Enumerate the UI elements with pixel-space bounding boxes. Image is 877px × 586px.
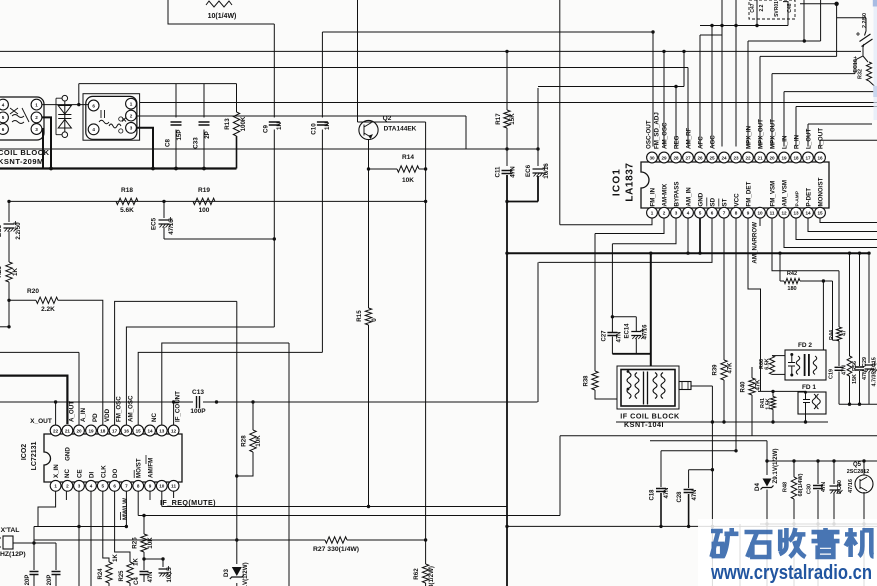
svg-text:2: 2	[663, 211, 666, 216]
electrolytic capacitor EC5	[159, 220, 170, 224]
wire C18 v	[660, 451, 662, 487]
wire C8 C33 R13 top line y83	[79, 83, 237, 85]
scrollbar edge	[874, 0, 877, 120]
svg-text:4.7/35: 4.7/35	[872, 372, 877, 387]
wire C18 b	[660, 493, 662, 526]
junction y524 x818	[816, 522, 819, 525]
junction x653 y32	[651, 30, 654, 33]
svg-text:NC: NC	[64, 469, 71, 478]
IC02 top pin circles 22-12	[50, 425, 61, 436]
svg-text:Q2: Q2	[383, 115, 392, 122]
svg-text:17: 17	[805, 155, 811, 160]
wire thick x507 down	[506, 202, 508, 586]
transistor Q2 DTA144EK	[359, 120, 378, 139]
resistor R48	[791, 477, 797, 499]
svg-text:R13: R13	[224, 118, 231, 130]
svg-text:47N: 47N	[617, 331, 623, 342]
svg-text:MO/ST: MO/ST	[136, 458, 143, 478]
wire x236 down	[236, 301, 238, 564]
wire svr hook	[783, 2, 788, 26]
svg-text:5: 5	[699, 211, 702, 216]
wire x818 under watermark	[817, 524, 819, 586]
wire pin3 down	[78, 492, 80, 586]
svg-text:15P: 15P	[176, 129, 183, 140]
junction y524 x794	[792, 522, 795, 525]
svg-text:21: 21	[757, 155, 763, 160]
capacitor C10	[317, 122, 328, 125]
wire pin22 up	[747, 41, 749, 147]
svg-text:18: 18	[100, 428, 106, 433]
junction EC5 top	[162, 200, 165, 203]
svg-text:25: 25	[709, 155, 715, 160]
svg-text:0: 0	[371, 318, 378, 322]
svg-text:19: 19	[781, 155, 787, 160]
wire R28 top	[252, 402, 254, 430]
wire pin5 GND	[699, 218, 701, 253]
svg-text:SD: SD	[710, 197, 717, 206]
wire x560 down	[559, 436, 561, 516]
wire x34 down	[33, 543, 35, 570]
wire y32 osc line	[322, 31, 653, 33]
wire R39 mid	[723, 356, 725, 360]
varactor diode pair D1 D2	[62, 95, 68, 101]
resistor R28	[250, 430, 256, 452]
coil block 1 pin circles	[0, 99, 8, 110]
resistor R17	[504, 110, 510, 128]
svg-text:AM_VSM: AM_VSM	[782, 180, 789, 206]
svg-text:100: 100	[199, 207, 210, 214]
overline SD	[706, 198, 708, 207]
junction pin8 y450	[734, 449, 737, 452]
junction bus x859	[858, 252, 861, 255]
wire x794 under watermark	[793, 524, 795, 586]
svg-text:9: 9	[747, 211, 750, 216]
resistor R21	[6, 262, 12, 282]
junction C18 bottom	[659, 525, 662, 528]
wire EC3 to R21	[8, 231, 10, 262]
wire R39 bottom	[723, 380, 725, 422]
svg-text:R15: R15	[356, 310, 363, 322]
svg-text:C30: C30	[807, 484, 813, 494]
wire to R44 bottom	[833, 339, 840, 341]
wire y391 FD1 feed	[758, 390, 806, 392]
wire pin27 up	[687, 68, 689, 147]
svg-text:C27: C27	[602, 330, 608, 342]
capacitor C27	[607, 333, 617, 336]
svg-text:15K: 15K	[852, 374, 858, 384]
wire pin15 MONO/ST	[820, 218, 877, 222]
wire y41 mpx	[748, 40, 821, 42]
svg-text:C48: C48	[787, 3, 793, 12]
wire pin23 up	[735, 0, 737, 147]
IC01 bottom pin circles 1-15	[647, 207, 658, 218]
svg-text:GND: GND	[698, 192, 705, 206]
svg-text:18: 18	[793, 155, 799, 160]
diode D3 zener 5.1V	[232, 567, 242, 576]
svg-text:8: 8	[735, 211, 738, 216]
wire EC14 v	[635, 317, 637, 331]
wire R24 bottom	[108, 583, 110, 586]
wire C28 b	[688, 494, 690, 526]
wire C11 bottom	[506, 175, 508, 202]
capacitor C2 20P	[30, 572, 39, 575]
svg-text:AFC: AFC	[698, 136, 705, 149]
wire EC5 top	[163, 201, 165, 218]
svg-text:12: 12	[171, 428, 177, 433]
wire pin24 up	[721, 0, 723, 147]
svg-text:R62: R62	[413, 568, 420, 580]
svg-text:6: 6	[2, 127, 5, 132]
svg-text:FD 2: FD 2	[798, 342, 812, 349]
wire C19 v	[838, 341, 840, 366]
wire svr vertical 1	[756, 0, 758, 26]
svg-text:180: 180	[787, 286, 796, 292]
wire R42 right	[800, 280, 833, 282]
svg-text:MPX_OUT: MPX_OUT	[758, 119, 765, 149]
wire C19 b	[838, 372, 840, 405]
svg-text:DTA144EK: DTA144EK	[384, 126, 417, 133]
svg-text:1: 1	[35, 102, 38, 107]
junction bus x849	[848, 252, 851, 255]
svg-text:11: 11	[171, 484, 176, 489]
wire R27 line right	[347, 539, 426, 541]
svg-text:FM_VSM: FM_VSM	[770, 181, 777, 207]
resistor R20	[36, 297, 58, 303]
wire R42 left down	[779, 253, 781, 281]
wire x236 bottom	[236, 583, 238, 586]
IC01 top pin circles 30-16	[647, 152, 658, 163]
wire from R11 down-right to node	[168, 0, 274, 24]
svg-text:1.5K: 1.5K	[766, 398, 772, 409]
svg-text:P-DET: P-DET	[806, 188, 813, 207]
wire C4 bottom	[143, 575, 145, 582]
wire R18-R19 line y201	[9, 200, 426, 202]
wire R32 bottom	[869, 81, 874, 92]
wire y140 right	[820, 139, 877, 141]
wire pin8 VCC	[735, 218, 737, 451]
wire EC6 bottom	[537, 176, 539, 202]
wire x804 down	[803, 0, 805, 41]
svg-text:22: 22	[745, 155, 751, 160]
svg-text:2.2: 2.2	[759, 4, 765, 11]
junction R62 top	[424, 538, 427, 541]
svg-text:C19: C19	[829, 369, 835, 379]
wire pin6 to R25	[115, 492, 130, 563]
svg-text:20P: 20P	[25, 575, 31, 586]
wire pin4 down	[90, 492, 92, 586]
svg-text:2: 2	[130, 113, 133, 118]
svg-text:FM_OSC: FM_OSC	[116, 396, 123, 422]
junction R26 top	[142, 514, 145, 517]
wire C8 vertical	[175, 84, 177, 118]
junction R26 bottom	[142, 557, 145, 560]
junction y326 node	[7, 325, 10, 328]
wire y526 right line	[507, 525, 877, 527]
wire R20 to IC02 pin18	[58, 300, 103, 425]
wire pin11 stub	[173, 492, 175, 499]
wire Q2 emitter down	[368, 140, 370, 308]
resistor R66	[769, 356, 774, 375]
capacitor C33	[199, 122, 210, 125]
svg-text:C18: C18	[650, 489, 656, 501]
junction C13 right	[215, 400, 218, 403]
svg-text:27: 27	[685, 155, 691, 160]
capacitor C13	[197, 396, 200, 408]
wire R56 t	[849, 253, 851, 356]
wire C30 b	[817, 490, 819, 524]
capacitor C18	[656, 489, 666, 492]
svg-text:14: 14	[805, 211, 811, 216]
wire vertical x357 to Q2	[357, 0, 359, 122]
watermark background	[698, 519, 877, 586]
crystal X1 4.5MHZ	[3, 536, 13, 549]
wire pin22 up	[55, 402, 57, 425]
transistor Q5 2SC2812	[855, 475, 873, 493]
svg-text:1: 1	[54, 484, 57, 489]
wire EC5 to x274	[164, 238, 274, 240]
svg-text:2.2/50: 2.2/50	[15, 222, 22, 240]
svg-text:C9: C9	[263, 124, 270, 132]
IF coil block KSNT-104I outer box	[617, 366, 679, 409]
junction R48 y461	[792, 459, 795, 462]
wire x832 down	[832, 281, 834, 340]
svg-text:ICO1: ICO1	[612, 168, 623, 196]
wire R42 stub	[780, 280, 784, 282]
op-amp U2 IC02 LC72131 body	[44, 434, 182, 482]
svg-text:47K: 47K	[728, 362, 734, 374]
svg-text:DO: DO	[112, 469, 119, 478]
svg-text:100P: 100P	[190, 408, 206, 415]
junction y524 x834	[832, 522, 835, 525]
svg-text:21: 21	[65, 428, 71, 433]
svg-text:VDD: VDD	[104, 408, 111, 422]
svg-text:A_IN: A_IN	[80, 407, 87, 422]
wire pin11 FM_VSM	[772, 218, 839, 271]
svg-text:10K: 10K	[255, 435, 262, 447]
svg-text:10: 10	[159, 484, 165, 489]
wire C28 top	[689, 469, 713, 471]
capacitor C28	[684, 490, 694, 493]
wire C27 EC14 top	[612, 316, 636, 318]
wire y461 line	[767, 460, 877, 462]
wire x612 down	[611, 244, 613, 317]
svg-text:AM_OSC: AM_OSC	[662, 122, 669, 149]
wire x34 up	[33, 527, 35, 544]
electrolytic capacitor EC4 10/15	[159, 569, 168, 573]
wire R15 bottom	[368, 325, 370, 507]
wire y91 line	[784, 91, 874, 93]
electrolytic capacitor EC20	[830, 486, 839, 490]
wire y326 stub	[0, 326, 9, 328]
wire pin13 line y343	[162, 343, 289, 425]
svg-text:4: 4	[687, 211, 690, 216]
svg-text:R27 330(1/4W): R27 330(1/4W)	[313, 546, 359, 553]
junction y422 x773	[771, 420, 774, 423]
wire pin16 up	[819, 140, 821, 146]
wire R28 bottom jog	[237, 452, 253, 476]
resistor R11 10(1/4W) partial zigzag at top edge	[206, 1, 232, 7]
resistor R40	[749, 378, 755, 395]
svg-text:C8: C8	[165, 138, 172, 146]
svg-text:16: 16	[817, 155, 823, 160]
watermark 矿石收音机	[711, 528, 874, 557]
junction x722 y25	[720, 24, 723, 27]
svg-text:C13: C13	[192, 389, 204, 396]
resistor R39	[721, 360, 727, 380]
wire x740 under watermark	[739, 524, 741, 586]
svg-text:OSC-OUT: OSC-OUT	[646, 120, 653, 149]
svg-text:100K: 100K	[240, 116, 247, 131]
junction C28 bottom	[687, 525, 690, 528]
svg-text:4: 4	[2, 102, 5, 107]
wire C28 v	[688, 470, 690, 488]
svg-text:6.5K: 6.5K	[765, 358, 771, 369]
wire supply y524	[760, 523, 877, 525]
IF coil block coils	[627, 373, 639, 399]
diode D4 zener 9.1V	[763, 479, 772, 487]
wire EC15 v	[868, 253, 870, 363]
svg-text:R26: R26	[132, 537, 139, 549]
wire pin19 up	[783, 92, 785, 147]
svg-text:5: 5	[102, 484, 105, 489]
capacitor C3 20P	[52, 572, 61, 575]
svg-text:3(1/2W): 3(1/2W)	[428, 566, 435, 586]
svg-text:5.6K: 5.6K	[120, 207, 134, 214]
svg-text:1K: 1K	[113, 553, 119, 561]
wire C8 lower	[175, 130, 177, 169]
svg-text:47N: 47N	[692, 489, 698, 500]
svg-text:7: 7	[723, 211, 726, 216]
wire x595 down	[594, 234, 596, 372]
wire thick ground bus y168	[0, 167, 237, 169]
coil block 2 body	[86, 96, 137, 139]
svg-text:MPX_OUT: MPX_OUT	[770, 119, 777, 149]
junction R42 right	[822, 279, 825, 282]
junction bus x869	[867, 252, 870, 255]
junction R14 right	[424, 167, 427, 170]
junction x538 y149	[536, 147, 539, 150]
wire R25 bottom	[129, 583, 131, 586]
svg-text:X_IN: X_IN	[53, 464, 60, 478]
svg-text:3: 3	[130, 126, 133, 131]
wire R26 to EC right	[144, 558, 163, 560]
capacitor C8	[171, 122, 182, 125]
svg-text:1: 1	[130, 102, 133, 107]
coil block 2 outer box	[83, 94, 140, 141]
svg-text:C11: C11	[495, 166, 502, 178]
wire y435 line	[560, 435, 877, 437]
junction pin5 bus	[698, 252, 701, 255]
wire D4 top	[766, 441, 768, 475]
junction C28 top	[711, 468, 714, 471]
wire block1 pin1 to block2 pin6	[42, 104, 89, 106]
wire y73 line	[772, 73, 855, 75]
svg-text:2.2/50: 2.2/50	[862, 13, 868, 28]
junction dot node FM ant	[77, 103, 80, 106]
svg-text:KSNT-209M: KSNT-209M	[0, 157, 44, 166]
IF coil block trimmer	[679, 382, 691, 390]
wire x425 bottom	[425, 583, 427, 586]
wire D4 bottom	[766, 490, 768, 525]
svg-text:47N: 47N	[862, 370, 868, 380]
wire pin18 up	[795, 107, 797, 147]
svg-text:15K: 15K	[509, 113, 516, 125]
junction FD1 bottom	[804, 420, 807, 423]
wire Q2 top to x425	[358, 121, 426, 123]
wire C3 bottom	[55, 575, 57, 586]
wire pin17 line y301	[115, 301, 237, 425]
wire EC10 top	[865, 18, 867, 31]
junction R15 bottom	[367, 505, 370, 508]
wire R41 stub	[772, 391, 774, 396]
wire R41 bottom	[772, 409, 774, 422]
wire Q5 collector	[863, 461, 865, 475]
wire x712 down	[711, 422, 713, 526]
svg-text:P-AMP: P-AMP	[795, 190, 801, 206]
svg-text:X'TAL: X'TAL	[1, 527, 20, 534]
wire crystal right	[13, 542, 34, 544]
wire C27 v	[611, 317, 613, 332]
svg-text:R28: R28	[241, 435, 248, 447]
svg-text:1K: 1K	[134, 557, 140, 565]
svg-text:19: 19	[88, 428, 94, 433]
wire y25 top right	[700, 25, 788, 27]
svg-text:17: 17	[112, 428, 118, 433]
svg-text:10/15: 10/15	[167, 567, 173, 583]
wire x767 under watermark	[766, 524, 768, 586]
wire R56 b	[849, 376, 851, 404]
svg-text:2.2K: 2.2K	[41, 306, 55, 313]
svg-text:EC5: EC5	[151, 217, 158, 230]
wire pin21 up	[759, 56, 761, 146]
junction R14 left	[367, 167, 370, 170]
wire to C3	[34, 542, 56, 544]
wire C13 line y402 left	[0, 401, 193, 403]
wire C18 top line	[661, 450, 736, 452]
ceramic filter FD2 box	[785, 350, 826, 380]
wire pin20 up	[78, 352, 80, 425]
resistor R62	[422, 564, 428, 583]
svg-text:6: 6	[92, 103, 95, 108]
wire EC20 b	[833, 493, 835, 524]
wire thick IF bus y253	[507, 252, 869, 254]
svg-text:X_OUT: X_OUT	[30, 418, 52, 425]
overline MW	[120, 512, 122, 520]
junction R28 top	[251, 400, 254, 403]
svg-text:KSNT-104I: KSNT-104I	[624, 420, 664, 429]
svg-text:2SC2812: 2SC2812	[847, 469, 869, 475]
svg-text:11: 11	[770, 211, 775, 216]
wire R14 left	[369, 168, 398, 170]
svg-text:SVR01: SVR01	[774, 1, 780, 17]
resistor R25	[127, 562, 133, 583]
wire pin20 line y352	[0, 351, 79, 353]
svg-text:AGC: AGC	[710, 135, 717, 149]
resistor R14	[397, 166, 419, 172]
svg-text:47N: 47N	[664, 487, 670, 498]
svg-text:47K: 47K	[756, 379, 762, 391]
svg-text:15: 15	[817, 211, 823, 216]
wire EC14 bottom	[635, 339, 637, 354]
wire y515 line	[138, 515, 560, 517]
svg-text:20: 20	[76, 428, 82, 433]
IF coil block inner box	[621, 370, 675, 407]
svg-text:D4: D4	[754, 482, 761, 490]
wire pin9 FM_DET	[748, 218, 761, 391]
svg-text:www.crystalradio.cn: www.crystalradio.cn	[710, 562, 872, 584]
wire pin8 down	[137, 492, 139, 516]
svg-text:9: 9	[149, 484, 152, 489]
